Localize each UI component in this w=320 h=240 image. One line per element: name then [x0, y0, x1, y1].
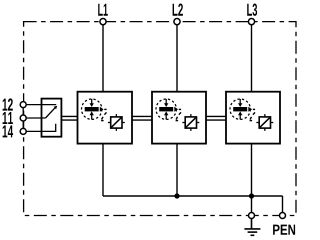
arrester 3 spark gap electrode: [233, 107, 247, 111]
changeover switch arm: [46, 107, 57, 118]
arrester 3 lower trigger arrow: [239, 115, 241, 120]
label 12: [3, 98, 13, 110]
remote signalling changeover contact box: [42, 99, 62, 137]
junction bus / arrester 2: [174, 193, 179, 198]
contact 12 lead: [26, 104, 57, 106]
arrester 2 isolating spark gap: [185, 117, 196, 128]
wire L2 drop to arrester 2: [176, 22, 178, 92]
terminal L3: [248, 19, 254, 25]
arrester module 2 (L2) outline: [152, 92, 206, 144]
wire bus to earth terminal: [251, 196, 253, 216]
wire arrester 2 to PEN bus: [176, 144, 178, 196]
arrester 3 trigger circuit (dashed circle): [230, 99, 250, 119]
mechanical link arrester 2 to arrester 3: [206, 116, 226, 120]
terminal 14: [20, 128, 26, 134]
wire bus to PEN terminal: [282, 196, 284, 216]
contact 14 lead: [26, 124, 56, 132]
terminal 12: [20, 102, 26, 108]
contact 11 lead: [26, 117, 46, 119]
label 14: [3, 125, 14, 137]
arrester 3 trigger output arrow: [248, 107, 252, 112]
ground symbol: [244, 219, 260, 236]
terminal 11: [20, 115, 26, 121]
arrester 1 isolating spark gap: [111, 117, 122, 128]
arrester 2 trigger output arrow: [174, 107, 178, 112]
arrester module 1 (L1) outline: [78, 92, 133, 144]
mechanical link arrester 1 to arrester 2: [132, 116, 152, 120]
arrester 2 spark gap electrode: [159, 107, 173, 111]
arrester 1 spark gap electrode: [85, 107, 99, 111]
terminal L1: [100, 19, 106, 25]
arrester 2 trigger circuit (dashed circle): [156, 99, 176, 119]
arrester 2 trigger line (dashed): [176, 109, 182, 120]
terminal earth: [249, 213, 255, 219]
arrester 1 lower trigger arrow: [91, 115, 93, 120]
arrester 2 upper trigger arrow: [165, 99, 167, 104]
arrester 3 upper trigger arrow: [239, 99, 241, 104]
label 11: [3, 112, 13, 124]
changeover switch arm arrowhead: [54, 106, 58, 110]
wire PEN bus: [103, 195, 283, 197]
arrester 1 trigger output arrow: [100, 107, 104, 112]
wire arrester 3 to PEN bus: [251, 144, 253, 196]
arrester 3 isolating spark gap: [259, 117, 270, 128]
arrester 3 trigger line (dashed): [250, 109, 256, 120]
wire linking terminals 12-11-14: [22, 105, 24, 132]
wire arrester 1 to PEN bus: [102, 144, 104, 196]
wire L1 drop to arrester 1: [102, 22, 104, 92]
label L1: [98, 4, 108, 16]
junction bus / arrester 3: [249, 193, 254, 198]
arrester 2 isolating spark gap stubs: [182, 114, 199, 131]
arrester 1 isolating spark gap stubs: [108, 114, 125, 131]
terminal L2: [174, 19, 180, 25]
mechanical link contact box to arrester 1: [61, 116, 77, 120]
terminal PEN: [280, 213, 286, 219]
arrester 2 lower trigger arrow: [165, 115, 167, 120]
wire L3 drop to arrester 3: [251, 22, 253, 92]
arrester 1 upper trigger arrow: [91, 99, 93, 104]
arrester 3 isolating spark gap stubs: [256, 114, 273, 131]
device enclosure dash-dot boundary: [24, 22, 296, 216]
arrester module 3 (L3) outline: [226, 92, 280, 144]
arrester 1 trigger line (dashed): [101, 109, 107, 120]
arrester 1 trigger circuit (dashed circle): [82, 99, 102, 119]
label L2: [173, 4, 183, 16]
label L3: [247, 4, 257, 16]
label PEN: [273, 225, 295, 235]
